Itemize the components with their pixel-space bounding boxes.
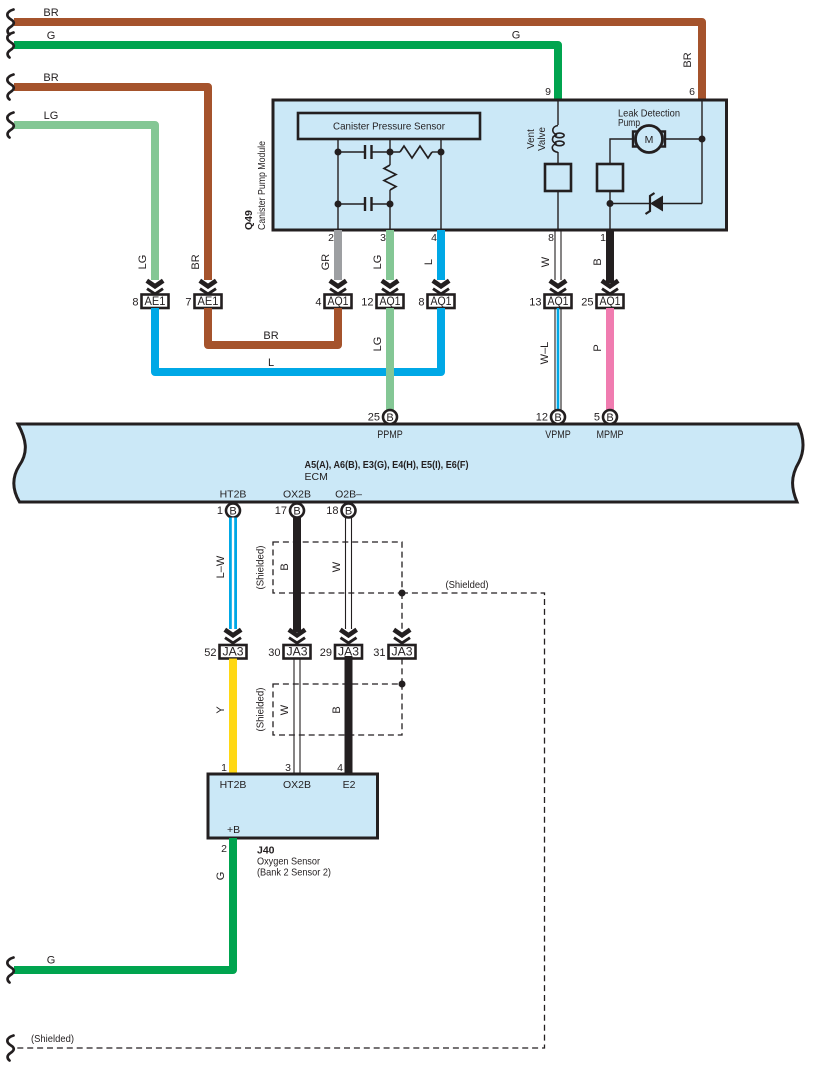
wire internal top row segments [338, 151, 365, 153]
svg-text:AQ1: AQ1 [380, 296, 401, 308]
svg-text:W–L: W–L [539, 342, 551, 365]
node MPMP circled B pin 5 [594, 410, 617, 424]
wire break symbol (G) [7, 33, 13, 58]
svg-text:VPMP: VPMP [545, 429, 571, 441]
svg-text:4: 4 [337, 762, 343, 774]
svg-text:L–W: L–W [215, 555, 227, 578]
long shield wire to bottom [14, 593, 545, 1048]
connector AQ1 pin 13 arrow [550, 281, 566, 297]
wire internal pin4 vertical [440, 139, 442, 230]
svg-text:Y: Y [215, 706, 227, 714]
wire BR AE1-7 to AQ1-4 [208, 308, 338, 345]
wire pin6 vertical into module [701, 100, 703, 204]
ECM band A5(A), A6(B), E3(G), E4(H), E5(I), E6(F) [14, 424, 803, 502]
svg-text:AQ1: AQ1 [548, 296, 569, 308]
svg-text:L: L [268, 357, 274, 369]
svg-text:ECM: ECM [305, 471, 328, 483]
svg-text:G: G [512, 30, 521, 42]
wire W O2B- to JA3-29 [346, 518, 352, 630]
svg-text:(Shielded): (Shielded) [31, 1034, 74, 1045]
svg-text:8: 8 [132, 297, 138, 309]
svg-text:O2B–: O2B– [335, 489, 362, 501]
connector JA3 pin 30 arrow [289, 630, 305, 646]
connector JA3 pin 31 [373, 645, 415, 659]
shield drain wire to JA3-31 [401, 593, 403, 629]
connector AQ1 pin 12 arrow [382, 281, 398, 297]
wire pump box to node [609, 191, 611, 204]
svg-text:5: 5 [594, 412, 600, 424]
wire LG AQ1-12 to ECM PPMP [386, 308, 394, 410]
svg-text:HT2B: HT2B [220, 779, 247, 791]
wire node to pin 1 [609, 204, 611, 231]
svg-text:17: 17 [275, 505, 287, 517]
wire G (feed to pin 9) [14, 45, 558, 99]
wire internal pin3 vertical (lower) [389, 190, 391, 230]
svg-text:JA3: JA3 [392, 647, 413, 659]
svg-text:B: B [592, 258, 604, 265]
zener diode D (pointing left) [650, 196, 663, 212]
svg-text:AQ1: AQ1 [328, 296, 349, 308]
wire LG (to connector AE1 pin 8) [14, 125, 155, 280]
svg-text:12: 12 [536, 412, 548, 424]
svg-text:B: B [554, 412, 561, 424]
svg-text:AQ1: AQ1 [431, 296, 452, 308]
svg-text:Canister Pressure Sensor: Canister Pressure Sensor [333, 121, 445, 133]
motor brush bracket right [660, 132, 665, 147]
svg-text:LG: LG [44, 110, 59, 122]
svg-text:7: 7 [185, 297, 191, 309]
connector AE1 pin 7 arrow [200, 281, 216, 297]
wire W-L AQ1-13 to ECM VPMP [555, 308, 561, 410]
svg-text:LG: LG [372, 255, 384, 270]
sub-block Canister Pressure Sensor [298, 113, 480, 139]
svg-text:GR: GR [320, 254, 332, 271]
pump driver box [597, 164, 623, 191]
wire break symbol (BR top-left) [7, 10, 13, 35]
svg-text:BR: BR [263, 330, 278, 342]
svg-text:1: 1 [221, 762, 227, 774]
wire break symbol (G bottom) [7, 958, 13, 983]
wire internal pin3 vertical (upper) [389, 139, 391, 165]
wire B OX2B to JA3-30 [293, 518, 301, 633]
connector JA3 pin 29 arrow [340, 630, 356, 646]
wire motor left to pump driver box [610, 139, 633, 164]
connector JA3 pin 30 [268, 645, 310, 659]
svg-text:12: 12 [361, 297, 373, 309]
inductor vent valve coil [552, 126, 558, 153]
wire motor right to pin6 line [665, 138, 702, 140]
motor brush bracket left [633, 132, 638, 147]
svg-text:BR: BR [43, 7, 58, 19]
svg-text:LG: LG [137, 255, 149, 270]
connector JA3 pin 52 [204, 645, 246, 659]
wire diode row [610, 203, 650, 205]
svg-text:(Bank 2 Sensor 2): (Bank 2 Sensor 2) [257, 867, 331, 879]
connector JA3 pin 52 arrow [225, 630, 241, 646]
wire L pin4 to AQ1-8 [437, 230, 445, 280]
svg-text:(Shielded): (Shielded) [256, 546, 267, 590]
connector AQ1 pin 12 [361, 295, 403, 309]
wire W pin8 to AQ1-13 [555, 230, 561, 280]
svg-text:Valve: Valve [537, 127, 548, 151]
svg-text:9: 9 [545, 86, 551, 98]
svg-text:1: 1 [600, 232, 606, 244]
connector AQ1 pin 13 [529, 295, 571, 309]
junction dots sensor network [335, 149, 342, 156]
svg-text:1: 1 [217, 505, 223, 517]
svg-text:A5(A), A6(B), E3(G), E4(H), E5: A5(A), A6(B), E3(G), E4(H), E5(I), E6(F) [305, 459, 469, 471]
valve driver box [545, 164, 571, 191]
svg-text:31: 31 [373, 647, 385, 659]
svg-text:+B: +B [227, 824, 240, 836]
svg-text:BR: BR [682, 52, 694, 67]
svg-text:L: L [423, 259, 435, 265]
svg-text:Q49: Q49 [243, 210, 255, 230]
resistor R (vertical) [384, 165, 396, 190]
svg-text:W: W [540, 256, 552, 267]
svg-text:B: B [279, 563, 291, 570]
wire internal bottom row segments [338, 203, 365, 205]
svg-text:Pump: Pump [618, 118, 640, 129]
junction dot pump node [607, 200, 614, 207]
svg-text:MPMP: MPMP [597, 429, 624, 441]
svg-text:G: G [47, 30, 56, 42]
svg-text:30: 30 [268, 647, 280, 659]
node VPMP circled B pin 12 [536, 410, 565, 424]
connector AQ1 pin 4 [315, 295, 351, 309]
wire B pin1 to AQ1-25 [606, 230, 614, 283]
svg-text:29: 29 [320, 647, 332, 659]
wire LG pin3 to AQ1-12 [386, 230, 394, 280]
wire break symbol (shield bottom) [7, 1036, 13, 1061]
connector AQ1 pin 8 [418, 295, 454, 309]
wire internal pin9 to vent valve [557, 100, 559, 125]
svg-text:(Shielded): (Shielded) [446, 580, 489, 591]
wire BR (to connector AE1 pin 7) [14, 87, 208, 280]
svg-text:W: W [279, 704, 291, 715]
wire L-W HT2B to JA3-52 [229, 518, 237, 630]
component J40 Oxygen Sensor body [208, 774, 378, 838]
svg-text:B: B [386, 412, 393, 424]
svg-text:W: W [331, 561, 343, 572]
junction dot shield box2 [399, 681, 406, 688]
module Q49 Canister Pump Module body [273, 100, 727, 230]
svg-text:Canister Pump Module: Canister Pump Module [257, 141, 268, 230]
wire break symbol (LG) [7, 113, 13, 138]
svg-text:PPMP: PPMP [377, 429, 403, 441]
svg-text:G: G [215, 872, 227, 881]
svg-text:6: 6 [689, 86, 695, 98]
wire coil to valve box [557, 152, 559, 164]
connector AE1 pin 8 arrow [147, 281, 163, 297]
connector JA3 pin 29 [320, 645, 362, 659]
connector AQ1 pin 4 arrow [330, 281, 346, 297]
shield box (ECM side) [273, 542, 402, 593]
connector AQ1 pin 25 [581, 295, 623, 309]
svg-text:JA3: JA3 [287, 647, 308, 659]
svg-text:3: 3 [285, 762, 291, 774]
svg-text:52: 52 [204, 647, 216, 659]
svg-text:B: B [606, 412, 613, 424]
svg-text:B: B [293, 505, 300, 517]
svg-text:B: B [345, 505, 352, 517]
connector JA3 pin 31 arrow [394, 630, 410, 646]
shield drain JA3-31 below [401, 659, 403, 685]
svg-text:BR: BR [43, 72, 58, 84]
svg-text:18: 18 [326, 505, 338, 517]
connector AE1 pin 7 [185, 295, 221, 309]
shield box (sensor side) [273, 684, 402, 735]
svg-text:3: 3 [380, 232, 386, 244]
svg-text:E2: E2 [343, 779, 356, 791]
wire L AE1-8 to AQ1-8 [155, 308, 441, 372]
connector AQ1 pin 25 arrow [602, 281, 618, 297]
svg-text:8: 8 [418, 297, 424, 309]
svg-text:P: P [592, 344, 604, 351]
svg-text:4: 4 [431, 232, 437, 244]
capacitor C (lower) [364, 197, 366, 211]
motor M leak detection pump [636, 126, 663, 153]
svg-text:AQ1: AQ1 [600, 296, 621, 308]
wire Y JA3-52 to J40 HT2B [229, 659, 237, 775]
svg-text:Vent: Vent [526, 129, 537, 149]
svg-text:25: 25 [581, 297, 593, 309]
wire break symbol (BR second) [7, 75, 13, 100]
wire P AQ1-25 to ECM MPMP [606, 308, 614, 410]
svg-text:2: 2 [328, 232, 334, 244]
svg-text:25: 25 [368, 412, 380, 424]
svg-text:B: B [229, 505, 236, 517]
svg-text:4: 4 [315, 297, 321, 309]
wire internal pin2 vertical [337, 139, 339, 230]
wire GR pin2 to AQ1-4 [334, 230, 342, 280]
svg-text:HT2B: HT2B [220, 489, 247, 501]
resistor R (horizontal) [400, 146, 432, 158]
svg-text:13: 13 [529, 297, 541, 309]
wire B JA3-29 to J40 E2 [345, 656, 353, 774]
svg-text:G: G [47, 955, 56, 967]
connector AQ1 pin 8 arrow [433, 281, 449, 297]
svg-text:2: 2 [221, 843, 227, 855]
svg-text:OX2B: OX2B [283, 489, 311, 501]
node PPMP circled B pin 25 [368, 410, 397, 424]
svg-text:OX2B: OX2B [283, 779, 311, 791]
svg-text:(Shielded): (Shielded) [256, 688, 267, 732]
svg-text:M: M [645, 134, 654, 146]
connector AE1 pin 8 [132, 295, 168, 309]
svg-text:AE1: AE1 [145, 296, 166, 308]
svg-text:BR: BR [190, 254, 202, 269]
wire BR (top battery feed to pin 6) [14, 22, 702, 99]
wire G J40 +B to left [14, 838, 233, 970]
junction dot pin6/motor [699, 136, 706, 143]
svg-text:B: B [331, 706, 343, 713]
svg-text:8: 8 [548, 232, 554, 244]
junction dot shield box1 [399, 590, 406, 597]
wire valve box to pin 8 [557, 191, 559, 230]
capacitor C (upper) [364, 145, 366, 159]
svg-text:LG: LG [372, 337, 384, 352]
wire W JA3-30 to J40 OX2B [294, 659, 300, 775]
svg-text:AE1: AE1 [198, 296, 219, 308]
svg-text:JA3: JA3 [223, 647, 244, 659]
